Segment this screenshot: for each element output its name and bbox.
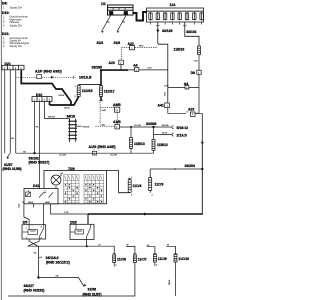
svg-text:11C/6: 11C/6 bbox=[117, 257, 126, 261]
fuse 11C/3 bbox=[149, 169, 151, 178]
ground 31/57 bbox=[7, 153, 10, 158]
svg-text:(RHD 33/232): (RHD 33/232) bbox=[24, 289, 45, 293]
svg-text:W: W bbox=[127, 245, 129, 247]
wire D21 pin1 down bbox=[9, 70, 11, 153]
thick wire node to A23/A4 bbox=[101, 69, 128, 71]
svg-text:RHD: RHD bbox=[102, 110, 107, 112]
wire A4 right side to 33/126 drop bbox=[139, 69, 168, 71]
wire D21 pin4 down bbox=[15, 70, 17, 153]
svg-text:LHD: LHD bbox=[147, 68, 152, 70]
svg-text:11C/4: 11C/4 bbox=[133, 184, 142, 188]
fuse 11D/16 bbox=[77, 86, 80, 97]
horizontal wire y153 bbox=[16, 152, 154, 154]
svg-text:33/204: 33/204 bbox=[185, 164, 195, 168]
ground lead 31/3 bbox=[102, 15, 111, 32]
16/114:2 branch bbox=[39, 256, 42, 258]
fuse row 11C/10 bbox=[166, 246, 175, 254]
svg-text:16/114:2: 16/114:2 bbox=[46, 256, 59, 260]
relay2 wires bbox=[87, 214, 89, 224]
thick bus below 11D/17 bbox=[100, 97, 102, 101]
svg-text:BL-GR: BL-GR bbox=[60, 155, 67, 157]
svg-text:D9:: D9: bbox=[2, 2, 7, 6]
wire A1/B right to 33/300 bbox=[120, 126, 154, 128]
table header marks bbox=[65, 176, 103, 180]
wire D10 pin2 down to switch bbox=[39, 102, 41, 189]
dashed attenuation line to 16/1A.B bbox=[16, 76, 76, 78]
wire A41 to A23b bbox=[168, 108, 186, 114]
svg-text:A6/B: A6/B bbox=[113, 103, 121, 107]
thick bus down from 33/295 bbox=[100, 70, 102, 85]
svg-text:1.5R: 1.5R bbox=[64, 212, 69, 214]
wire 11B/18 to D8 bbox=[198, 55, 200, 71]
svg-text:11C/3: 11C/3 bbox=[155, 182, 164, 186]
fuse row 11C/7 bbox=[126, 247, 135, 256]
svg-text:11C/9: 11C/9 bbox=[158, 257, 167, 261]
relay1 wires bbox=[24, 208, 29, 225]
svg-text:11C/10: 11C/10 bbox=[178, 257, 189, 261]
svg-text:Supply 30+: Supply 30+ bbox=[10, 7, 23, 10]
lamp to box link bbox=[55, 185, 57, 188]
fuse 11B/12 bbox=[152, 140, 155, 151]
svg-text:1/1: 1/1 bbox=[101, 2, 106, 6]
wire D10 pin3 down to 34/18 bbox=[45, 102, 70, 119]
wire 34/18 out right bbox=[76, 125, 82, 127]
svg-text:A23: A23 bbox=[109, 61, 115, 65]
svg-text:(RHD 31/58): (RHD 31/58) bbox=[3, 167, 22, 171]
svg-text:(RHD A3/D): (RHD A3/D) bbox=[44, 69, 62, 73]
svg-text:A41: A41 bbox=[158, 103, 164, 107]
svg-text:33/300: 33/300 bbox=[146, 122, 156, 126]
svg-text:D41: D41 bbox=[33, 184, 39, 188]
svg-text:BN-SB: BN-SB bbox=[162, 125, 169, 127]
svg-text:A23: A23 bbox=[188, 107, 194, 111]
svg-text:11B/13: 11B/13 bbox=[134, 142, 145, 146]
svg-text:31/8: 31/8 bbox=[114, 41, 121, 45]
wire D10 pin1 down to 33/232 bbox=[34, 102, 36, 154]
lamp symbol bbox=[51, 173, 63, 185]
svg-text:Supply 30+: Supply 30+ bbox=[10, 24, 23, 27]
wire branch y87.5 bbox=[168, 88, 203, 114]
svg-text:A1/F: A1/F bbox=[35, 69, 42, 73]
svg-text:W: W bbox=[99, 244, 101, 246]
sub-box pin stubs bbox=[19, 204, 51, 214]
svg-text:34/18: 34/18 bbox=[67, 114, 76, 118]
legend text D21 bbox=[2, 32, 29, 48]
bottom horizontal wire y214.5 bbox=[51, 213, 88, 215]
svg-text:R-B: R-B bbox=[164, 92, 166, 96]
legend text D10 bbox=[2, 11, 28, 27]
svg-text:BL-GR: BL-GR bbox=[111, 155, 118, 157]
svg-text:BL-W: BL-W bbox=[162, 133, 167, 135]
svg-text:33/295: 33/295 bbox=[92, 65, 102, 69]
wire to ground 31/56 bbox=[38, 278, 84, 287]
page border left bbox=[0, 0, 2, 300]
svg-text:2/1A:5: 2/1A:5 bbox=[177, 133, 187, 137]
svg-text:A4: A4 bbox=[133, 64, 137, 68]
svg-text:BL-GR: BL-GR bbox=[135, 125, 142, 127]
svg-text:GR-SB: GR-SB bbox=[83, 126, 90, 128]
svg-text:GR-SB: GR-SB bbox=[48, 117, 55, 119]
svg-text:11D/17: 11D/17 bbox=[104, 90, 115, 94]
wire to 2/1A:5 bbox=[154, 127, 173, 135]
svg-text:7/29: 7/29 bbox=[68, 167, 75, 171]
wire A23 to right bus bbox=[195, 113, 202, 141]
table dots bbox=[65, 184, 102, 202]
svg-text:16/1A.B: 16/1A.B bbox=[79, 75, 92, 79]
svg-text:31/56: 31/56 bbox=[88, 288, 97, 292]
svg-text:11B/12: 11B/12 bbox=[157, 143, 168, 147]
svg-text:LHD: LHD bbox=[101, 125, 106, 127]
fuse row 11C/9 bbox=[147, 247, 155, 255]
wire to 5/18:12 bbox=[154, 126, 173, 128]
svg-text:2/5: 2/5 bbox=[23, 220, 28, 224]
wire A23 down to node bbox=[120, 65, 122, 71]
wire D8 down bbox=[198, 75, 200, 88]
dashed RHD wire A22 to A23 bbox=[122, 48, 130, 60]
dashed RHD wire A22 right to R-B drop bbox=[135, 47, 158, 49]
svg-text:Supply 30+: Supply 30+ bbox=[10, 45, 23, 48]
svg-text:33/101: 33/101 bbox=[186, 30, 196, 34]
thick wire D21 pin3 zigzag bbox=[21, 70, 71, 105]
svg-text:11D/16: 11D/16 bbox=[82, 89, 93, 93]
svg-text:11A: 11A bbox=[170, 3, 177, 7]
fuse elements in 11A bbox=[149, 12, 203, 21]
svg-text:11B/18: 11B/18 bbox=[174, 47, 185, 51]
fuse 11D/17 bbox=[100, 86, 103, 97]
node 33/227 bbox=[37, 276, 39, 278]
arrow on bus bbox=[201, 141, 204, 144]
svg-text:W: W bbox=[147, 245, 149, 247]
ground lead 31/8 bbox=[117, 15, 126, 32]
svg-text:33/227: 33/227 bbox=[24, 284, 34, 288]
svg-text:D8: D8 bbox=[191, 71, 195, 75]
headlamp switch box bbox=[44, 171, 107, 204]
legend text D9 bbox=[2, 2, 23, 10]
wire fuse 6 down to 11B/18 bbox=[185, 22, 199, 46]
svg-text:GR-R: GR-R bbox=[169, 279, 171, 285]
svg-text:W: W bbox=[167, 245, 169, 247]
fuse row 11C/6 bbox=[113, 255, 116, 263]
wire D21 pin2 down bbox=[4, 70, 6, 153]
wire from fuse 2 down bbox=[157, 22, 159, 44]
wire down to 11B/12 bbox=[153, 135, 155, 140]
switch table bbox=[64, 175, 104, 203]
svg-text:5/18:12: 5/18:12 bbox=[177, 126, 189, 130]
svg-text:33/126: 33/126 bbox=[162, 29, 172, 33]
svg-text:A1/B: A1/B bbox=[113, 120, 121, 124]
node 33/232 bbox=[33, 152, 35, 154]
dashed RHD to A6/B bbox=[100, 106, 114, 108]
wire 33/204 left to 11C/3 bbox=[150, 168, 202, 170]
node 33/126 bbox=[157, 29, 159, 31]
svg-text:D10:: D10: bbox=[2, 11, 9, 15]
svg-text:OR-W: OR-W bbox=[64, 108, 70, 110]
fuse 11C/4 bbox=[107, 170, 130, 192]
bus down right side bbox=[201, 143, 203, 216]
svg-text:OR-W: OR-W bbox=[59, 95, 65, 97]
svg-text:(RHD 16/115:2): (RHD 16/115:2) bbox=[46, 260, 70, 264]
wire 33/126 down-right to A4 bbox=[158, 44, 168, 103]
svg-text:31/3: 31/3 bbox=[97, 41, 104, 45]
fuse 11B/13 bbox=[130, 127, 132, 138]
svg-text:1M-B: 1M-B bbox=[45, 202, 50, 204]
fuse 11B/18 bbox=[198, 46, 201, 55]
svg-text:(RHD A3/E): (RHD A3/E) bbox=[98, 145, 116, 149]
svg-text:D21:: D21: bbox=[2, 32, 9, 36]
wire battery to fuse box (thick) bbox=[133, 12, 147, 21]
svg-text:(RHD 30/227): (RHD 30/227) bbox=[29, 160, 50, 164]
svg-text:11C/7: 11C/7 bbox=[138, 257, 147, 261]
svg-text:Y-W: Y-W bbox=[194, 60, 198, 62]
contact a bbox=[26, 192, 54, 198]
wire 11D/16 top tie to bus bbox=[79, 85, 101, 86]
svg-text:A1/G: A1/G bbox=[89, 145, 97, 149]
svg-text:RHD: RHD bbox=[139, 46, 144, 48]
wire A6/B down to A1/B bbox=[116, 112, 118, 124]
battery 1/1 bbox=[108, 5, 134, 15]
svg-text:1M-S: 1M-S bbox=[28, 202, 33, 204]
